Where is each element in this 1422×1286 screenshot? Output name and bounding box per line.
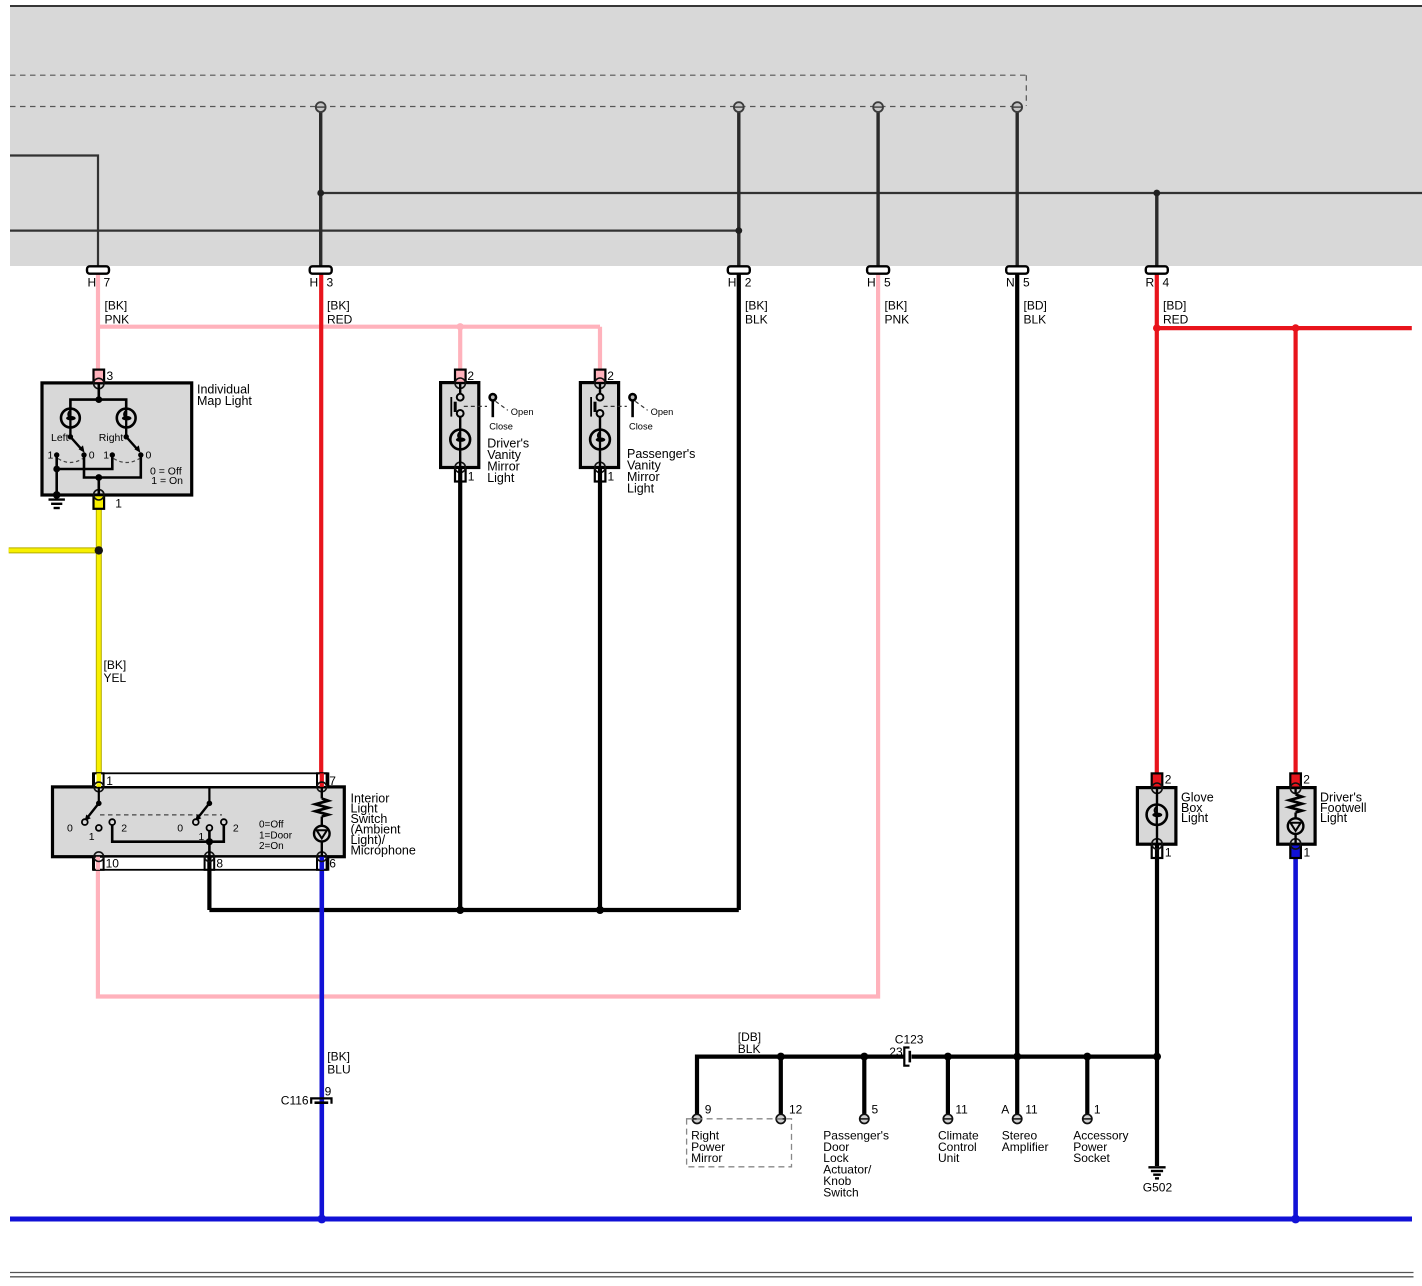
svg-text:12: 12 [789,1103,803,1117]
switch blade right map [124,427,141,452]
pin 8 interior switch [205,852,224,871]
wire map to pin1 [98,478,101,496]
bulb right map [117,409,136,428]
svg-text:7: 7 [329,774,336,788]
node H5 top circle [873,102,883,112]
wire N5 drop [1016,107,1019,267]
wire map to ground [55,469,58,495]
svg-text:3: 3 [327,276,334,290]
switch door vanity1 [451,383,463,417]
svg-text:Open: Open [651,407,674,417]
junction map ground branch [53,466,60,473]
wire BLU bottom bus [10,1217,1412,1222]
svg-text:1: 1 [1304,846,1311,860]
label Passenger's Door Lock Actuator Knob Switch [823,1128,889,1199]
svg-text:5: 5 [884,276,891,290]
node contacts right switch [103,450,151,463]
svg-text:Light: Light [1320,811,1348,825]
svg-text:2: 2 [467,369,474,383]
wire H2 drop [737,107,740,267]
svg-text:6: 6 [329,857,336,871]
wire band mid [321,192,1422,194]
svg-text:YEL: YEL [104,671,127,685]
junction BLK vanity1 [456,906,464,914]
terminal 5 door lock [860,1103,879,1124]
terminal 9 right power mirror [692,1103,711,1124]
junction R4 mid [1153,190,1160,197]
dashed bus upper [10,74,1026,76]
svg-text:9: 9 [325,1085,332,1099]
svg-text:BLK: BLK [1024,313,1047,327]
node N5 top circle [1012,102,1022,112]
ground G502 [1143,1167,1173,1194]
connector C123 [889,1033,924,1066]
wire BLU pin6 down [319,858,324,1220]
svg-text:0: 0 [89,450,95,462]
bulb glove [1147,788,1167,844]
svg-text:N: N [1006,276,1015,290]
wire BLU footwell drop [1293,858,1298,1220]
svg-text:2: 2 [607,369,614,383]
connector N5 [1006,266,1030,289]
component Driver's Footwell Light box [1278,788,1315,845]
wire RED drop footwell [1293,328,1297,786]
svg-text:[BD]: [BD] [1163,299,1186,313]
wire BLK drop mirror9 [695,1055,699,1115]
junction interior pin8 [206,838,213,845]
svg-text:Close: Close [489,422,513,432]
node H2 top circle [734,102,744,112]
svg-text:5: 5 [1023,276,1030,290]
svg-text:Socket: Socket [1073,1151,1110,1165]
wire map 1-contacts link [57,455,113,469]
connector H3 [310,266,334,289]
svg-text:PNK: PNK [885,313,910,327]
svg-text:0: 0 [177,822,183,834]
connector C116 [281,1085,332,1108]
junction H2 low [735,227,742,234]
junction YEL [95,546,103,554]
dashed bus lower [10,106,1021,108]
svg-text:H: H [728,276,737,290]
wire PNK branch horizontal [98,325,600,329]
svg-text:11: 11 [955,1103,968,1117]
wire BLK drop accessory [1085,1057,1089,1115]
wire band feed H7 [10,156,98,267]
switch 1 interior [67,787,127,843]
wire RED R4 to glove pin2 [1155,274,1159,786]
pin row top interior switch [93,773,329,787]
svg-text:2: 2 [121,822,127,834]
svg-text:3: 3 [107,369,114,383]
bulb vanity1 [450,417,470,468]
svg-text:Amplifier: Amplifier [1002,1140,1049,1154]
svg-text:11: 11 [1025,1103,1038,1117]
svg-text:BLU: BLU [327,1063,350,1077]
svg-text:10: 10 [106,857,120,871]
svg-text:Microphone: Microphone [351,843,416,857]
svg-text:23: 23 [889,1045,903,1059]
led interior switch [314,826,330,857]
pin 1 interior switch [94,773,113,791]
wire H3 drop [319,107,322,267]
svg-text:[BK]: [BK] [885,299,908,313]
svg-text:C116: C116 [281,1094,309,1108]
wire interior 2-contacts link [112,825,224,842]
junction H3 mid [317,190,324,197]
wire PNK drop vanity2 [598,327,602,370]
wire RED branch horizontal [1157,326,1412,330]
svg-text:1: 1 [1165,846,1172,860]
svg-text:1: 1 [608,469,615,483]
pin row bottom interior switch [93,857,329,870]
svg-text:A: A [1001,1103,1009,1117]
label Right Power Mirror [691,1128,725,1165]
ground map light [49,491,65,508]
wire RED H3 to switch pin7 [319,274,323,786]
junction map pin1 branch [95,474,102,481]
svg-text:Unit: Unit [938,1151,960,1165]
label Driver's Footwell Light [1320,790,1367,825]
wire BLK drop climate [946,1057,950,1115]
label Climate Control Unit [938,1128,979,1165]
lever open-close vanity1 [464,394,534,432]
bulb left map [61,409,80,428]
svg-text:1: 1 [115,496,122,510]
svg-text:0: 0 [146,450,152,462]
svg-text:H: H [88,276,97,290]
resistor interior switch [315,787,328,826]
svg-text:1: 1 [468,469,475,483]
wire map 0-contacts link [84,455,141,478]
junction BLU C116 wire [317,1215,326,1224]
lever open-close vanity2 [604,394,674,432]
wire BLK drop doorlock [862,1057,866,1115]
svg-text:2: 2 [745,276,752,290]
wire BLK N5 to stereo [1015,274,1019,1115]
terminal 12 right power mirror [776,1103,802,1124]
svg-text:1: 1 [103,450,109,462]
junction DB climate [944,1053,952,1061]
pin 1 map light [94,490,123,511]
svg-text:2=On: 2=On [259,841,284,852]
switch 2 interior [177,787,239,843]
svg-text:PNK: PNK [105,313,130,327]
wire interior pin8 link [208,831,211,857]
svg-text:1 = On: 1 = On [151,475,183,487]
connector R4 [1146,266,1170,289]
pin 1 glove [1152,839,1172,860]
pin 1 vanity1 [455,462,475,483]
junction BLK vanity2 [596,906,604,914]
svg-text:0: 0 [67,822,73,834]
led footwell [1288,818,1304,844]
switch door vanity2 [591,383,603,417]
svg-text:BLK: BLK [745,313,768,327]
svg-text:BLK: BLK [738,1042,761,1056]
junction DB 12 [777,1053,785,1061]
svg-text:[BK]: [BK] [327,299,350,313]
pin 2 footwell [1290,773,1310,794]
svg-text:Open: Open [511,407,534,417]
svg-text:2: 2 [1165,773,1172,787]
pin 2 vanity1 [455,369,474,389]
wire band low [10,230,739,232]
svg-text:H: H [310,276,319,290]
svg-text:Light: Light [627,482,655,496]
label Passenger's Vanity Mirror Light [627,447,695,496]
pin 2 vanity2 [595,369,614,389]
junction RED footwell [1292,324,1300,332]
wire YEL edge branch [9,547,99,553]
junction PNK vanity1 [457,323,464,330]
pin 1 footwell [1290,839,1310,860]
svg-text:Switch: Switch [823,1185,858,1199]
svg-text:7: 7 [104,276,111,290]
wire BLK vanity2 drop [598,481,602,910]
label Interior Light Switch [351,791,416,857]
wire PNK H7 to map light pin3 [96,274,100,370]
svg-text:1: 1 [106,774,113,788]
svg-text:RED: RED [327,313,353,327]
node contacts left switch [48,450,95,463]
dashed bus corner [1025,75,1027,106]
component Individual Map Light box [42,383,192,495]
wire PNK drop vanity1 [458,327,462,370]
bulb vanity2 [590,417,610,468]
wire BLK DB bus left [697,1054,904,1058]
pin 1 vanity2 [595,462,615,483]
component Glove Box Light box [1137,788,1176,845]
pin 3 map light [94,369,114,389]
svg-text:R: R [1146,276,1155,290]
node right power mirror dashed box [687,1119,792,1167]
svg-text:2: 2 [1303,773,1310,787]
junction map feed [95,396,102,403]
junction DB 5 [860,1053,868,1061]
page footer rules [10,1273,1414,1277]
junction RED R4 [1153,324,1161,332]
pin 7 interior switch [317,773,336,791]
junction DB glove [1153,1053,1161,1061]
junction DB stereo [1013,1053,1021,1061]
svg-text:[BK]: [BK] [105,299,128,313]
switch blade left map [68,427,85,452]
svg-text:[BK]: [BK] [104,658,127,672]
wire BLK DB bus right [912,1054,1158,1058]
svg-text:Light: Light [487,471,515,485]
svg-text:9: 9 [705,1103,712,1117]
wire map bulb tee [70,400,126,409]
terminal A11 stereo [1001,1103,1038,1124]
power distribution band [10,6,1422,266]
label Glove Box Light [1181,790,1214,825]
svg-text:Mirror: Mirror [691,1151,722,1165]
connector H5 [867,266,891,289]
svg-text:Map Light: Map Light [197,394,252,408]
svg-text:Right: Right [99,432,124,444]
terminal 1 accessory [1083,1103,1101,1124]
svg-text:[BK]: [BK] [327,1049,350,1063]
svg-text:RED: RED [1163,313,1189,327]
svg-text:Light: Light [1181,811,1209,825]
svg-text:4: 4 [1163,276,1170,290]
svg-text:Left: Left [51,432,69,444]
terminal 11 climate [943,1103,968,1124]
svg-text:0=Off: 0=Off [259,820,284,831]
wire H5 drop [876,107,879,267]
label Stereo Amplifier [1002,1128,1049,1153]
pin 10 interior switch [94,852,119,871]
svg-text:5: 5 [872,1103,879,1117]
label switch positions [259,820,293,852]
svg-text:G502: G502 [1143,1181,1173,1195]
wire YEL map to switch pin1 [96,509,102,786]
wire BLK vanity1 drop [458,481,462,910]
wire BLK vanity bus [209,908,738,912]
svg-text:[BD]: [BD] [1024,299,1047,313]
wire BLK H2 down [737,274,741,910]
connector H7 [87,266,111,289]
node H3 top circle [316,102,326,112]
svg-text:1: 1 [48,450,54,462]
wire BLK glove to ground [1155,858,1159,1167]
wire PNK H5 loop [98,274,878,997]
pin 2 glove [1152,773,1172,794]
wire map internal feed [98,384,101,400]
svg-text:8: 8 [216,857,223,871]
svg-text:1: 1 [89,831,95,843]
wire BLK pin8 drop [207,870,211,910]
component Passenger's Vanity Mirror Light box [580,383,618,468]
resistor footwell [1289,788,1302,818]
wire R4 drop [1155,193,1158,267]
label Driver's Vanity Mirror Light [487,437,529,486]
svg-text:1: 1 [1094,1103,1101,1117]
component Driver's Vanity Mirror Light box [441,383,479,468]
svg-text:[BK]: [BK] [745,299,768,313]
pin 6 interior switch [317,852,336,871]
svg-text:H: H [867,276,876,290]
wire BLK drop mirror12 [779,1057,783,1115]
switch link dashed [100,814,222,816]
label Accessory Power Socket [1073,1128,1128,1165]
junction DB accessory [1083,1053,1091,1061]
component Interior Light Switch box [53,787,345,857]
svg-text:2: 2 [233,822,239,834]
svg-text:Close: Close [629,422,653,432]
connector H2 [728,266,752,289]
junction BLU footwell [1291,1215,1300,1224]
